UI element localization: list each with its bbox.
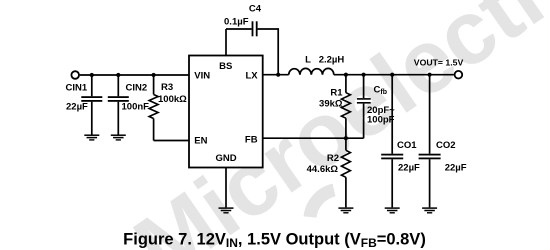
watermark swirl fragment xyxy=(310,190,334,217)
svg-text:100nF: 100nF xyxy=(122,102,150,113)
node dot CO1 top xyxy=(390,73,394,77)
svg-text:Figure 7. 12VIN, 1.5V Output (: Figure 7. 12VIN, 1.5V Output (VFB=0.8V) xyxy=(123,231,426,250)
svg-text:CO1: CO1 xyxy=(397,140,417,151)
wire output rail xyxy=(334,74,454,76)
node dot Cfb top xyxy=(362,73,366,77)
wire FB xyxy=(263,137,364,139)
ground CO1 xyxy=(385,207,400,213)
ground R2 xyxy=(338,207,353,213)
op-amp U1 IC body xyxy=(189,56,263,168)
wire C4 left xyxy=(226,28,252,30)
node dot FB/R2 xyxy=(344,136,348,140)
svg-text:VIN: VIN xyxy=(194,70,210,81)
node dot R1 top xyxy=(344,73,348,77)
resistor R2 zigzag xyxy=(341,150,350,177)
wire GND stub xyxy=(225,168,227,208)
svg-text:L: L xyxy=(305,54,311,65)
svg-text:CIN1: CIN1 xyxy=(66,83,88,94)
svg-text:44.6kΩ: 44.6kΩ xyxy=(307,164,339,175)
svg-text:R2: R2 xyxy=(327,153,339,164)
capacitor CO1 plates xyxy=(381,154,403,156)
terminal input circle xyxy=(71,71,79,79)
node dot R3 xyxy=(152,73,156,77)
capacitor CIN1 plates xyxy=(81,96,102,98)
capacitor C4 plates xyxy=(252,21,254,36)
svg-text:22µF: 22µF xyxy=(66,102,88,113)
wire VIN rail xyxy=(80,74,189,76)
resistor R1 zigzag xyxy=(341,93,350,119)
svg-text:VOUT= 1.5V: VOUT= 1.5V xyxy=(414,57,464,67)
ground CIN2 xyxy=(111,134,126,140)
svg-text:LX: LX xyxy=(245,70,258,81)
svg-text:C4: C4 xyxy=(249,4,262,15)
ground CO2 xyxy=(422,207,437,213)
resistor R2 wires xyxy=(345,138,347,207)
inductor L humps xyxy=(289,68,334,74)
svg-text:22µF: 22µF xyxy=(445,163,467,174)
svg-text:22µF: 22µF xyxy=(398,163,420,174)
wire BS stub xyxy=(225,29,227,56)
node dot CIN1 xyxy=(90,73,94,77)
capacitor CO2 wires xyxy=(429,75,431,208)
svg-text:CIN2: CIN2 xyxy=(126,83,148,94)
capacitor CO1 wires xyxy=(391,75,393,208)
resistor R3 zigzag xyxy=(149,95,158,119)
svg-text:FB: FB xyxy=(245,135,258,146)
ground GND pin xyxy=(219,207,234,213)
capacitor Cfb wires xyxy=(363,75,365,139)
svg-text:39kΩ: 39kΩ xyxy=(319,99,343,110)
resistor R3 body wires xyxy=(153,75,155,141)
capacitor CO2 plates xyxy=(419,154,441,156)
capacitor CIN2 plates xyxy=(108,96,129,98)
watermark xyxy=(118,0,550,250)
wire CIN1 drop xyxy=(91,75,93,135)
ground CIN1 xyxy=(84,134,99,140)
terminal VOUT circle xyxy=(455,71,463,79)
svg-text:2.2µH: 2.2µH xyxy=(319,55,345,66)
capacitor Cfb plates xyxy=(357,98,371,100)
svg-text:R3: R3 xyxy=(161,82,173,93)
resistor R1 wires xyxy=(345,75,347,139)
svg-text:BS: BS xyxy=(219,61,232,72)
svg-text:100kΩ: 100kΩ xyxy=(158,94,187,105)
svg-text:0.1µF: 0.1µF xyxy=(224,16,249,27)
wire C4 right and down to LX xyxy=(258,29,279,75)
wire CIN2 drop xyxy=(117,75,119,135)
svg-text:Microelectr: Microelectr xyxy=(118,0,550,250)
wire LX out xyxy=(263,74,289,76)
node dot LX/C4 xyxy=(276,73,280,77)
svg-text:CO2: CO2 xyxy=(436,140,456,151)
svg-text:R1: R1 xyxy=(330,88,343,99)
svg-text:EN: EN xyxy=(194,135,207,146)
svg-text:100pF: 100pF xyxy=(367,115,395,126)
wire R3 to EN xyxy=(154,140,189,142)
svg-text:GND: GND xyxy=(215,153,236,164)
node dot CIN2 xyxy=(116,73,120,77)
node dot CO2 top xyxy=(428,73,432,77)
